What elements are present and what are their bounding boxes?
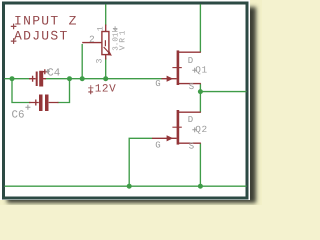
C4 plate left <box>36 72 38 87</box>
origin tick <box>172 67 181 69</box>
transistor Q2 (JFET) <box>152 110 208 152</box>
svg-text:2: 2 <box>89 34 95 45</box>
pin 3 stub <box>105 55 107 60</box>
node junction dot Q2 source on bottom bus <box>198 184 203 189</box>
wire Q2 source down to bottom bus <box>199 143 201 186</box>
wiper lead pin 2 <box>82 42 102 44</box>
svg-text:D: D <box>188 56 193 66</box>
transistor Q1 (JFET) <box>155 50 208 92</box>
page border frame <box>3 3 247 198</box>
node junction dot bus left <box>10 76 15 81</box>
drain lead <box>179 51 201 53</box>
pin 1 stub <box>105 25 107 32</box>
source lead <box>179 142 201 144</box>
wire bottom bus <box>5 185 247 187</box>
background canvas <box>0 0 262 205</box>
svg-text:Q1: Q1 <box>195 64 207 75</box>
svg-text:C4: C4 <box>47 67 60 79</box>
C4 plate right <box>39 71 43 87</box>
wire main bus left segment <box>5 78 31 80</box>
svg-text:Q2: Q2 <box>195 124 207 135</box>
wire Q1 source stub to right frame <box>200 91 246 93</box>
svg-text:1: 1 <box>97 26 106 31</box>
gate lead with arrow <box>162 78 177 80</box>
wiper arrow diagonal <box>104 47 110 54</box>
node junction dot VR1 pin3 on bus <box>103 76 108 81</box>
node junction dot Q1 source <box>198 89 203 94</box>
white schematic page <box>0 0 250 200</box>
svg-text:C6: C6 <box>12 109 25 121</box>
label +12V <box>88 83 117 95</box>
wire Q1 source down to Q2 drain <box>199 84 201 113</box>
wire VR1 pin1 up to frame <box>105 4 107 25</box>
wire main bus right of C4 to Q1 gate <box>45 78 162 80</box>
svg-text:G: G <box>155 140 160 150</box>
origin tick <box>172 126 181 128</box>
svg-text:VR1: VR1 <box>118 28 127 50</box>
drop shadow <box>7 7 256 203</box>
body <box>102 32 109 55</box>
C6 plate left <box>39 95 43 112</box>
channel bar <box>177 50 180 85</box>
wire Q2 gate horizontal and vertical down <box>129 138 152 186</box>
wire VR1 pin3 down to bus <box>105 58 107 79</box>
svg-text:INPUT Z: INPUT Z <box>14 13 78 28</box>
svg-text:ADJUST: ADJUST <box>14 29 69 44</box>
node junction dot Q2 gate on bottom bus <box>127 184 132 189</box>
C6 leads and polarity plus <box>29 100 59 106</box>
source lead <box>179 83 201 85</box>
svg-text:D: D <box>188 115 193 125</box>
channel bar <box>177 110 180 145</box>
node junction dot wiper on bus <box>80 76 85 81</box>
wiper cross tick <box>104 40 106 46</box>
svg-text:3: 3 <box>96 59 105 64</box>
svg-text:S: S <box>189 142 194 152</box>
label INPUT Z ADJUST <box>11 13 78 44</box>
capacitor C4 <box>29 67 60 86</box>
C4 plus symbol <box>42 69 47 74</box>
node junction dot cap loop right <box>67 76 72 81</box>
svg-text:+12V: +12V <box>88 83 117 95</box>
C4 leads and polarity plus <box>29 76 46 82</box>
C6 plate right <box>45 95 49 112</box>
potentiometer VR1 <box>82 25 127 64</box>
capacitor C6 <box>12 95 59 122</box>
svg-text:G: G <box>155 79 160 89</box>
wire VR1 wiper down to bus <box>81 44 83 79</box>
drain lead <box>179 111 201 113</box>
wire cap loop: left vertical, bottom, right vertical <box>12 79 70 103</box>
gate lead with arrow <box>152 137 177 139</box>
svg-text:S: S <box>189 82 194 92</box>
wire Q1 drain up to frame <box>199 4 201 52</box>
